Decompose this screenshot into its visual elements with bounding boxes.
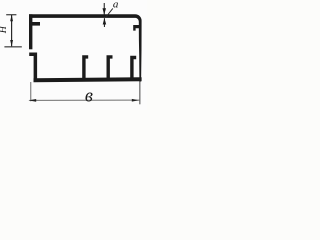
paper background — [0, 0, 147, 110]
dimension B line — [29, 99, 139, 101]
dimension H upper arrowhead — [10, 15, 13, 22]
rib 3 with cap — [130, 56, 136, 79]
svg-text:a: a — [113, 0, 119, 11]
dimension a lower arrowhead — [103, 18, 107, 25]
dimension B right arrowhead — [132, 99, 139, 102]
dimension a lower line — [104, 18, 105, 27]
dimension a upper arrowhead — [103, 8, 107, 15]
dimension B left extension line — [30, 82, 31, 101]
svg-text:в: в — [85, 87, 93, 107]
dimension H bottom extension tick — [4, 46, 21, 47]
dimension B left arrowhead — [28, 99, 36, 102]
dimension H line — [11, 15, 12, 46]
cover left inner lip — [32, 22, 40, 26]
dimension H lower arrowhead — [10, 40, 13, 47]
rib 1 with cap — [82, 55, 88, 79]
cover top wall and right wall (rounded top-right corner) — [29, 14, 142, 81]
dimension a leader line — [106, 8, 113, 17]
dimension a upper line — [104, 3, 105, 15]
base left wall with outward lip — [29, 53, 37, 83]
rib 2 with cap — [107, 55, 113, 79]
cover left wall — [29, 14, 32, 49]
cover right inner lip — [133, 25, 139, 31]
dimension H top extension tick — [6, 14, 16, 15]
svg-text:H: H — [0, 25, 9, 34]
base bottom wall — [34, 77, 142, 82]
dimension B right extension line — [139, 82, 140, 105]
